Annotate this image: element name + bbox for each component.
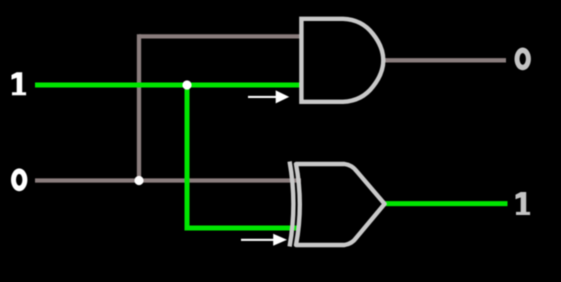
wire: AND gate output net, carries 0 bbox=[383, 58, 506, 62]
wire: green net A vertical + bottom branch to XOR input pin 2 bbox=[187, 85, 301, 228]
value label: input B = 0 (white) bbox=[11, 168, 27, 191]
value label: input A = 1 (white) bbox=[12, 72, 27, 95]
wire: gray net B top branch horizontal to AND input pin 1 bbox=[139, 34, 303, 38]
node: junction of net A (green) bbox=[182, 80, 191, 89]
XOR gate U2 input arc bbox=[290, 162, 294, 247]
XOR gate U2 body bbox=[296, 164, 385, 245]
AND gate U1 bbox=[301, 19, 383, 102]
wire: green net A horizontal from input 1 to AND input pin 2 bbox=[35, 83, 303, 88]
value label: AND output = 0 (gray) bbox=[515, 48, 531, 71]
value label: XOR output = 1 (gray) bbox=[516, 192, 531, 215]
arrow: signal direction marker at XOR input pin 2 bbox=[241, 234, 287, 246]
arrow: signal direction marker at AND input pin 2 bbox=[248, 90, 289, 103]
wire: gray net B vertical branch bbox=[137, 34, 141, 180]
wire: XOR gate output net, carries 1 bbox=[385, 201, 508, 206]
wire: gray net B main horizontal from input 0 to XOR input pin 1 bbox=[35, 178, 301, 182]
node: junction of net B (gray) bbox=[134, 176, 143, 185]
